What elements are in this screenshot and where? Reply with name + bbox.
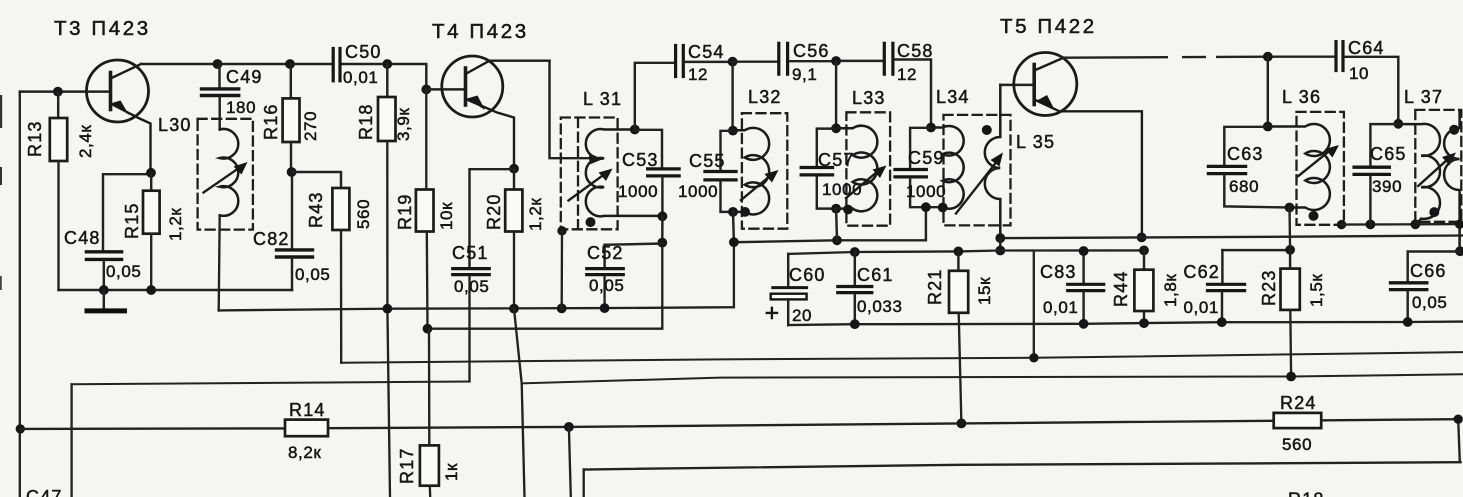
node: L34 top: [926, 123, 936, 133]
inductor L34 arrow head: [991, 153, 1004, 167]
svg-text:C63: C63: [1227, 144, 1264, 164]
svg-text:Т3 П423: Т3 П423: [54, 17, 151, 40]
node: C62 bottom on bus D: [1217, 317, 1227, 327]
capacitor C49 plate bottom: [202, 94, 239, 97]
inductor L32 arrow head: [765, 170, 779, 183]
svg-text:R24: R24: [1280, 393, 1317, 413]
svg-text:560: 560: [1282, 435, 1312, 454]
wire: C52 top branch: [605, 244, 663, 245]
capacitor C64 plate right: [1341, 42, 1344, 71]
node: L36 riser on collector bus: [1263, 52, 1273, 62]
svg-text:2,4к: 2,4к: [76, 125, 95, 158]
resistor R18 drop to bottom edge: [387, 141, 390, 497]
svg-text:R13: R13: [25, 120, 45, 157]
transistor T3 circle: [87, 60, 149, 122]
resistor R43 body: [332, 188, 349, 230]
wire: riser to L33 top: [835, 61, 837, 128]
svg-text:1,8к: 1,8к: [1161, 274, 1180, 307]
node: C49 top on bus: [213, 59, 223, 69]
inductor L30 coil: [220, 129, 239, 216]
capacitor C58 plate right: [891, 43, 894, 74]
inductor L30 arrow head: [234, 162, 248, 175]
svg-text:1000: 1000: [678, 182, 718, 201]
transistor T3 emitter lead: [111, 104, 151, 173]
node: R21 bottom on line 3: [957, 419, 967, 429]
node: L32 bottom left: [728, 207, 738, 217]
wire: L32 drop to tank bus: [732, 212, 735, 242]
node: L31 top / C54 riser: [630, 125, 640, 135]
svg-text:3,9к: 3,9к: [394, 108, 413, 141]
svg-text:C66: C66: [1410, 261, 1447, 281]
capacitor C51 drop to bias wire: [468, 276, 470, 382]
svg-text:C60: C60: [789, 265, 826, 285]
inductor L30 adjust arrow: [204, 168, 240, 193]
node: junction left rail / R14 bus: [16, 424, 25, 433]
svg-text:0,05: 0,05: [589, 276, 625, 295]
wire: C54 to L32 top riser: [685, 61, 733, 63]
capacitor C49 lead top: [218, 64, 220, 87]
node: tank bottom / C52 wire: [657, 238, 667, 248]
wire: T3 base wire: [20, 90, 111, 92]
resistor R21 lead top: [957, 251, 959, 270]
node: L35 bottom: [995, 233, 1005, 243]
inductor L32 coil: [733, 128, 769, 215]
inductor L31 coil (bumps left): [586, 129, 663, 216]
node: line3 right end: [1454, 415, 1463, 424]
capacitor C59 plate top: [895, 168, 926, 171]
inductor L33 dashed box: [846, 112, 890, 225]
resistor R17 body: [420, 445, 439, 485]
ground stub: [103, 290, 105, 309]
svg-text:0,05: 0,05: [1412, 293, 1448, 312]
wire: T4 base wire: [426, 88, 465, 90]
capacitor C55 plate bottom: [705, 178, 736, 181]
svg-text:C50: C50: [345, 42, 382, 62]
node: R16 bottom / C82 / R43: [287, 167, 297, 177]
node: T5 emitter on return wire: [1137, 233, 1147, 243]
wire: supply line 3 after R14: [328, 419, 1458, 428]
inductor L36 polarity dot: [1309, 211, 1319, 221]
svg-text:390: 390: [1372, 177, 1402, 196]
node: L37 bottom on tank wire: [1411, 219, 1421, 229]
inductor L33 arrow head: [873, 166, 887, 179]
node: T3 base / R13 junction: [53, 87, 63, 97]
wire: right edge link line3 to line4: [1458, 419, 1460, 462]
inductor L34/L35 dashed box: [944, 115, 1011, 225]
node: R21 top: [954, 247, 964, 257]
svg-text:0,05: 0,05: [295, 265, 331, 284]
capacitor C48 plate bottom: [86, 258, 121, 261]
svg-text:Т4 П423: Т4 П423: [432, 20, 529, 43]
capacitor C52 plate bottom: [587, 273, 623, 276]
node: L32 top: [728, 126, 738, 136]
arrow head T4 feed into L31: [589, 153, 603, 165]
wire: C65 lead bottom: [1369, 176, 1371, 225]
resistor R15 lead bottom: [150, 234, 152, 290]
scan edge mark 3: [0, 276, 2, 290]
node: C83 top: [1079, 246, 1089, 256]
scan fade on collector bus: [1168, 54, 1182, 60]
inductor L38 secondary winding (bumps left): [1444, 112, 1460, 251]
capacitor C53 plate top: [648, 167, 679, 170]
capacitor C60 plus sign: [767, 308, 777, 318]
capacitor C55 plate top: [705, 170, 736, 173]
capacitor C50 plate right: [338, 49, 341, 81]
wire: C62 top to R23 top: [1222, 249, 1290, 251]
capacitor C61 plate top: [838, 285, 872, 288]
wire: bias line 2 left segment (C47 riser to C51): [72, 382, 470, 385]
capacitor C59 plate bottom: [895, 175, 926, 178]
resistor R13 lead top: [57, 92, 59, 118]
svg-text:R18: R18: [1288, 490, 1325, 497]
node: L33 top: [831, 123, 841, 133]
capacitor C63 plate bottom: [1208, 172, 1245, 175]
node: C83 bottom on bus D: [1079, 319, 1089, 329]
wire: C56 to L33 riser and C58: [789, 60, 883, 63]
wire: C57 loop bottom: [817, 176, 853, 208]
node: drop on line 3: [564, 422, 574, 432]
wire: T3 emitter branch to C48: [103, 174, 151, 250]
node: R23 bottom on line 2: [1286, 372, 1296, 382]
node: C56/C58 junction: [831, 56, 841, 66]
node: R23 top / L36 bottom: [1285, 245, 1295, 255]
capacitor C49 lead bottom to L30: [218, 97, 220, 130]
capacitor C60 plate top: [773, 286, 807, 289]
node: R18 top on bus: [382, 59, 392, 69]
wire: L33 drop to tank bus: [835, 209, 838, 241]
node: L33 bottom left: [831, 204, 841, 214]
resistor R19 lead bottom to bus C: [426, 232, 429, 329]
capacitor C64 plate left: [1334, 42, 1337, 71]
node: L31 box corner screen tap: [557, 226, 566, 235]
node: L38 bottom on tank wire: [1455, 220, 1463, 229]
wire: bias line 2 right segment (R20 drop to right edge): [522, 374, 1463, 383]
node: L36 box corner on tank wire: [1337, 220, 1346, 229]
node: L31 screen on bus B: [557, 304, 567, 314]
wire: L36 bottom drop to R23 node: [1288, 208, 1291, 250]
svg-text:C56: C56: [793, 41, 830, 61]
capacitor C60 lead top: [787, 254, 789, 286]
wire: line 4 (bottom distribution): [584, 462, 1461, 469]
svg-text:R17: R17: [397, 447, 417, 484]
capacitor C63 plate top: [1208, 165, 1245, 168]
svg-text:1,5к: 1,5к: [1307, 274, 1326, 307]
transistor T3 base bar: [109, 73, 113, 110]
capacitor C83 plate bottom: [1068, 289, 1104, 292]
node: L32 coil bottom: [740, 207, 750, 217]
wire: riser to L32 top: [731, 62, 733, 131]
capacitor C66 lead bottom: [1406, 291, 1408, 322]
wire: C47 riser to bottom edge: [70, 384, 72, 497]
node: riser on AGC line: [1029, 353, 1038, 362]
wire: C63 loop bottom: [1224, 175, 1289, 207]
svg-text:1,2к: 1,2к: [166, 208, 185, 241]
inductor L36 coil: [1268, 124, 1330, 210]
capacitor C51 plate top: [453, 267, 489, 270]
svg-text:8,2к: 8,2к: [288, 443, 321, 462]
wire: T4 collector feed down to L31 tap: [550, 61, 594, 159]
svg-text:0,05: 0,05: [454, 277, 490, 296]
svg-text:С48: С48: [64, 228, 101, 248]
node: C48/ground on bus A: [99, 285, 109, 295]
ground bar: [87, 308, 125, 313]
svg-text:С82: С82: [253, 229, 290, 249]
node: C54/C56 junction: [728, 57, 738, 67]
svg-text:R43: R43: [306, 191, 326, 228]
svg-text:0,05: 0,05: [106, 262, 142, 281]
wire: C53 top lead: [635, 130, 662, 168]
capacitor C62 lead top: [1221, 250, 1223, 283]
inductor L34 coil: [931, 126, 964, 209]
resistor R14 body: [285, 420, 328, 437]
svg-text:R21: R21: [925, 268, 945, 305]
capacitor C82 plate top: [277, 248, 313, 251]
inductor L36 adjust arrow: [1298, 151, 1330, 177]
svg-text:1к: 1к: [442, 463, 461, 481]
node: L37 top: [1393, 119, 1403, 129]
svg-text:C53: C53: [622, 150, 659, 170]
svg-text:L 36: L 36: [1282, 87, 1321, 107]
node: emitter / R15 top: [146, 168, 156, 178]
inductor L37/L38 adjust arrow: [1418, 160, 1447, 186]
svg-text:12: 12: [897, 65, 917, 84]
node: R20 on bus B: [509, 304, 519, 314]
wire: C55 loop bottom: [721, 181, 745, 212]
capacitor C65 plate top: [1354, 166, 1389, 169]
node: C52 on bus B: [600, 303, 610, 313]
svg-text:R15: R15: [122, 202, 142, 239]
transistor T5 emitter arrow: [1037, 95, 1055, 110]
wire: bus C (R19 to tank bottom riser): [428, 328, 663, 330]
node: R18 on bus B: [383, 304, 393, 314]
resistor R23 lead top: [1289, 250, 1291, 269]
resistor R24 body: [1274, 413, 1322, 428]
wire: riser collector bus to L36 top: [1267, 57, 1269, 127]
inductor L37 coil: [1398, 124, 1440, 224]
svg-text:R23: R23: [1259, 269, 1279, 306]
svg-text:C54: C54: [688, 42, 725, 62]
node: C66 bottom on bus D: [1403, 317, 1413, 327]
capacitor C56 plate left: [777, 43, 780, 74]
node: C65 bottom on tank wire: [1366, 220, 1376, 230]
svg-text:L30: L30: [158, 115, 192, 135]
svg-text:1,2к: 1,2к: [526, 198, 545, 231]
resistor R20 body: [505, 190, 522, 232]
wire: supply line 3 (left rail to R14): [20, 427, 285, 430]
resistor R16 lead top: [290, 64, 292, 98]
node: L31/C53 bottom: [658, 211, 668, 221]
scan edge mark 2: [0, 167, 2, 185]
node: R44 top: [1139, 246, 1149, 256]
capacitor C61 lead top: [854, 252, 856, 285]
transistor T4 emitter arrow: [467, 96, 485, 111]
capacitor C83 lead bottom: [1082, 292, 1084, 324]
inductor L33 adjust arrow: [846, 172, 878, 199]
transistor T5 collector lead: [1034, 58, 1063, 71]
capacitor C66 plate top: [1391, 281, 1427, 284]
capacitor C57 plate bottom: [801, 173, 832, 176]
inductor L35 polarity dot: [982, 125, 992, 135]
capacitor C54 plate right: [682, 46, 685, 77]
inductor L36 arrow head: [1325, 145, 1339, 158]
wire: bottom bus D (C60 to right edge): [788, 322, 1463, 326]
wire: C58 outlet to L34 riser: [894, 60, 931, 128]
svg-text:С47: С47: [26, 487, 63, 497]
svg-text:680: 680: [1229, 177, 1259, 196]
svg-text:C83: C83: [1040, 262, 1077, 282]
svg-text:C59: C59: [908, 148, 945, 168]
inductor L32 adjust arrow: [741, 176, 770, 200]
wire: right tank bottom wire: [1342, 223, 1463, 226]
capacitor C61 lead bottom: [854, 294, 856, 324]
resistor R19 body: [416, 190, 434, 232]
transistor T4 circle: [442, 56, 503, 117]
inductor L36 dashed box: [1297, 112, 1344, 225]
node: C61 bottom on bus D: [850, 319, 860, 329]
svg-text:10к: 10к: [437, 202, 456, 230]
scan edge mark 1: [0, 95, 2, 128]
svg-text:R19: R19: [395, 193, 415, 230]
capacitor C52 lead top: [603, 245, 605, 267]
capacitor C49 plate top: [202, 87, 239, 90]
svg-text:R18: R18: [356, 103, 376, 140]
inductor L32 dashed box: [742, 113, 787, 229]
inductor L30 dashed box: [198, 119, 253, 230]
node: R44 bottom on bus D: [1139, 318, 1149, 328]
wire: C55 loop top: [721, 131, 733, 170]
capacitor C60 lead bottom: [787, 299, 789, 325]
wire: line 4 left drop: [583, 470, 585, 497]
wire: C59 loop bottom: [910, 178, 942, 207]
capacitor C51 plate bottom: [453, 273, 489, 276]
svg-text:R16: R16: [261, 103, 281, 140]
wire: L31 screen drop to bus B: [561, 231, 564, 309]
wire: R20 drop lower (bus B to bottom edge): [514, 309, 525, 497]
resistor R20 lead bottom to bus B: [513, 232, 515, 309]
wire: C65 loop top: [1370, 124, 1398, 166]
inductor L35 winding (bumps left): [985, 85, 1001, 238]
wire: riser tank bottom to bus C: [661, 243, 663, 328]
svg-text:C65: C65: [1370, 144, 1407, 164]
svg-text:L34: L34: [936, 87, 970, 107]
capacitor C61 plate bottom: [838, 291, 872, 294]
inductor L37 dashed box: [1415, 110, 1461, 222]
node: L34 coil bottom: [938, 203, 948, 213]
node: C61 top: [850, 247, 860, 257]
wire: C59 loop top: [910, 128, 931, 168]
svg-text:1000: 1000: [618, 182, 658, 201]
wire: C57 loop top: [817, 129, 836, 166]
inductor L31 inner screen dash: [577, 118, 579, 229]
inductor L31 adjust arrow: [569, 175, 605, 201]
node: L33 coil bottom: [843, 205, 853, 215]
wire: top bus after C50 into T4 base: [342, 64, 427, 89]
svg-text:C51: C51: [452, 243, 489, 263]
svg-text:9,1: 9,1: [792, 65, 817, 84]
resistor R15 lead top: [150, 173, 152, 191]
svg-text:C58: C58: [897, 41, 934, 61]
resistor R23 body: [1281, 269, 1300, 310]
wire: C66 top wire: [1408, 252, 1460, 282]
node: L36 bottom: [1285, 203, 1295, 213]
node: T4 emitter / R20 top: [509, 164, 519, 174]
svg-text:R44: R44: [1111, 270, 1131, 307]
transistor T3 emitter arrow: [112, 101, 129, 116]
svg-text:R14: R14: [289, 400, 326, 420]
svg-text:270: 270: [301, 111, 320, 141]
capacitor C58 plate left: [883, 43, 886, 74]
node: T4 base junction: [421, 85, 431, 95]
wire: drop from line 3 to bottom edge: [569, 427, 571, 497]
wire: L35 bottom to decoupling node: [999, 238, 1001, 250]
wire: decoupling wire C60-R44: [788, 250, 1144, 254]
capacitor C83 lead top: [1082, 251, 1084, 283]
wire: riser decoupling wire to AGC line: [1033, 251, 1035, 358]
capacitor C54 plate left: [674, 46, 677, 77]
wire: C64 outlet to L37 top: [1345, 57, 1399, 124]
wire: C53 bottom to C52 branch node: [661, 216, 664, 242]
svg-text:0,01: 0,01: [1043, 298, 1079, 317]
capacitor C57 plate top: [801, 166, 832, 169]
node: L32 drop on tank bus: [729, 237, 739, 247]
resistor R16 lead bottom: [290, 142, 292, 172]
svg-text:0,01: 0,01: [1184, 298, 1220, 317]
wire: emitter branch to C51: [470, 169, 515, 267]
transistor T5 circle: [1014, 53, 1077, 116]
resistor R44 lead top: [1143, 250, 1145, 269]
wire: left vertical rail from T3 base to bottom edge: [19, 92, 21, 497]
capacitor C62 plate bottom: [1208, 289, 1245, 292]
resistor R17 leads: [429, 329, 430, 497]
inductor L37 polarity dot bottom: [1429, 207, 1439, 217]
capacitor C52 plate top: [587, 267, 623, 270]
wire: tank bottom bus (L32-L33-L34): [734, 207, 926, 242]
resistor R21 body: [949, 271, 968, 313]
resistor R21 lead bottom to line 3: [959, 313, 962, 424]
node: L34 bottom left: [921, 202, 931, 212]
resistor R15 body: [143, 191, 160, 234]
node: L33 drop on tank bus: [832, 235, 842, 245]
svg-text:C55: C55: [689, 151, 726, 171]
svg-text:20: 20: [792, 306, 812, 325]
svg-text:15к: 15к: [975, 277, 994, 305]
transistor T5 base wire: [1000, 84, 1034, 86]
node: R15 bottom on bus A: [146, 285, 156, 295]
wire: bus A (emitter ground bus): [59, 289, 293, 291]
capacitor C56 plate right: [786, 43, 789, 74]
resistor R44 body: [1134, 270, 1153, 311]
resistor R16 body: [283, 98, 300, 142]
capacitor C52 lead bottom to bus B: [603, 276, 605, 308]
svg-text:10: 10: [1349, 64, 1369, 83]
svg-text:12: 12: [688, 65, 708, 84]
capacitor C62 plate top: [1208, 283, 1245, 286]
svg-text:L32: L32: [748, 87, 782, 107]
capacitor C48 lead bottom: [103, 261, 105, 290]
svg-text:180: 180: [226, 98, 256, 117]
wire: C63 loop top: [1224, 127, 1268, 165]
svg-text:R20: R20: [484, 193, 504, 230]
inductor L31 arrow head: [599, 169, 613, 182]
svg-text:L 37: L 37: [1404, 87, 1443, 107]
wire: R16 bottom to R43 top: [292, 172, 341, 188]
resistor R23 lead bottom to line 2: [1289, 310, 1292, 377]
svg-text:1000: 1000: [906, 182, 946, 201]
svg-text:C57: C57: [818, 150, 855, 170]
inductor L37 arrow head: [1442, 153, 1456, 166]
svg-text:L 31: L 31: [583, 89, 622, 109]
node: L36 top: [1263, 122, 1273, 132]
